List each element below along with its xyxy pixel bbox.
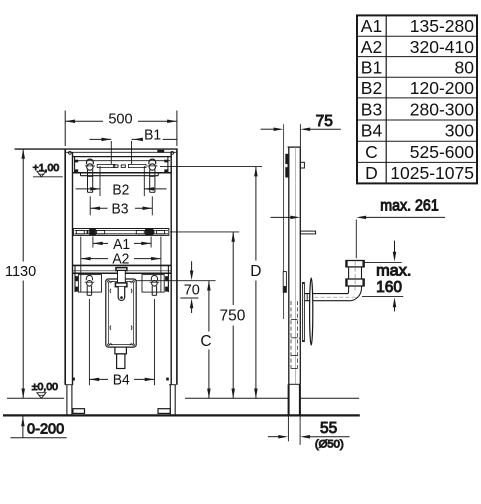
- svg-text:D: D: [250, 263, 261, 280]
- svg-text:B1: B1: [361, 57, 382, 77]
- svg-text:0-200: 0-200: [27, 422, 64, 438]
- level line segments: [7, 397, 64, 399]
- dim 75: [261, 124, 341, 147]
- svg-text:±0,00: ±0,00: [32, 381, 58, 393]
- table text: [361, 16, 474, 183]
- lower crossbar: [73, 265, 172, 292]
- svg-text:max. 261: max. 261: [380, 198, 439, 215]
- frame top member: [15, 149, 178, 154]
- dim B3: [90, 196, 152, 215]
- dim max160: [362, 241, 403, 312]
- drain pipe horizontal: [302, 294, 358, 301]
- level mark ±0,00: [37, 393, 46, 399]
- mounting box: [106, 279, 136, 347]
- svg-text:(Ø50): (Ø50): [315, 439, 344, 451]
- side rail lower details: [291, 301, 300, 369]
- dim 750: [170, 232, 239, 398]
- svg-text:D: D: [365, 163, 378, 183]
- svg-text:B2: B2: [361, 78, 382, 98]
- svg-text:750: 750: [219, 307, 245, 324]
- side lower bracket: [302, 282, 305, 342]
- svg-text:70: 70: [184, 282, 200, 298]
- dim max261: [271, 216, 445, 259]
- side view top bracket: [285, 154, 289, 178]
- dim 70: [136, 261, 215, 313]
- dim B1: [90, 138, 177, 165]
- svg-text:B4: B4: [361, 121, 383, 141]
- dimension table: [357, 15, 477, 183]
- svg-text:80: 80: [455, 57, 475, 77]
- svg-text:+1,00: +1,00: [33, 162, 60, 174]
- drain elbow: [348, 289, 362, 301]
- svg-text:500: 500: [108, 111, 132, 127]
- lower bolt right: [150, 275, 160, 295]
- hanger bolt right: [147, 159, 157, 192]
- frame left rail: [65, 149, 72, 384]
- dim 55: [268, 435, 350, 439]
- drain down pipe: [288, 384, 300, 445]
- svg-text:135-280: 135-280: [410, 16, 474, 36]
- svg-text:525-600: 525-600: [410, 142, 474, 162]
- dim A2: [81, 237, 161, 293]
- floor line: [3, 414, 360, 416]
- dim B4: [89, 299, 154, 385]
- dim 0-200: [11, 417, 67, 438]
- frame right rail: [171, 149, 177, 384]
- flush pipe fitting: [115, 268, 127, 301]
- svg-text:75: 75: [316, 113, 333, 130]
- svg-text:160: 160: [376, 279, 402, 296]
- outlet below box: [115, 347, 127, 368]
- side view lower wall bracket: [283, 272, 286, 293]
- svg-text:280-300: 280-300: [410, 100, 474, 120]
- level mark +1,00: [33, 171, 63, 177]
- lower bolt left: [85, 275, 95, 295]
- svg-text:A2: A2: [361, 37, 382, 57]
- svg-text:1025-1075: 1025-1075: [390, 163, 474, 183]
- drain vertical pipe: [346, 261, 364, 293]
- ellipse cover plate: [310, 278, 313, 345]
- svg-text:B2: B2: [112, 181, 129, 198]
- dim 1130: [21, 149, 25, 398]
- dim D: [160, 167, 262, 399]
- dim 500: [65, 111, 177, 147]
- svg-text:B3: B3: [112, 201, 129, 218]
- svg-text:B4: B4: [113, 372, 130, 389]
- svg-text:max.: max.: [376, 262, 411, 279]
- svg-text:C: C: [200, 333, 211, 350]
- svg-text:C: C: [365, 142, 378, 162]
- svg-text:A1: A1: [361, 16, 382, 36]
- svg-text:120-200: 120-200: [410, 78, 474, 98]
- svg-text:B3: B3: [361, 100, 382, 120]
- svg-text:55: 55: [320, 420, 337, 437]
- dim B2: [76, 166, 167, 196]
- dim C: [207, 281, 211, 399]
- svg-text:300: 300: [445, 121, 474, 141]
- legs and feet: [65, 378, 176, 416]
- dim A1: [93, 237, 151, 248]
- svg-text:1130: 1130: [5, 264, 36, 280]
- svg-text:B1: B1: [144, 126, 161, 143]
- hanger bolt left: [85, 159, 95, 192]
- svg-text:320-410: 320-410: [410, 37, 474, 57]
- side view wall line: [283, 124, 285, 319]
- side view rail: [288, 147, 316, 384]
- upper crossbar: [73, 157, 172, 176]
- middle crossbar: [73, 229, 168, 236]
